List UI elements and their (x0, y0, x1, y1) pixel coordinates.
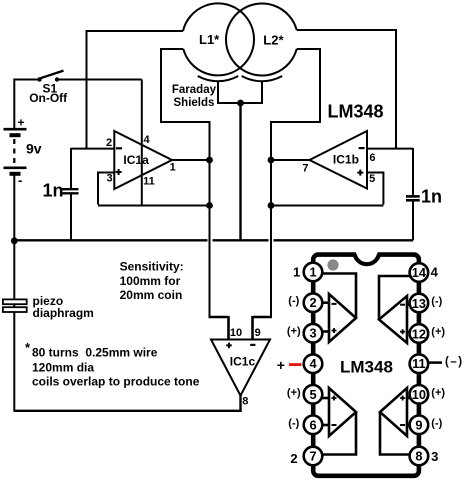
svg-text:2: 2 (309, 295, 316, 310)
coil L2 (226, 3, 297, 75)
svg-text:LM348: LM348 (340, 358, 393, 377)
DIP pin circles right (410, 263, 429, 465)
wire hook to IC1c pin10 (209, 316, 229, 340)
svg-text:11: 11 (412, 356, 426, 371)
svg-text:9v: 9v (26, 141, 42, 157)
wire C1 top lead (70, 148, 72, 188)
svg-text:Faraday: Faraday (172, 84, 217, 96)
inverting input minus IC1c (250, 344, 255, 346)
wire battery bottom lead to ground rail (13, 176, 15, 309)
wire pin5 hook (367, 173, 383, 205)
svg-text:3: 3 (309, 326, 316, 341)
wire hook to IC1c pin9 (253, 316, 273, 340)
wire shield right drop (261, 82, 263, 104)
svg-text:1n: 1n (421, 187, 442, 207)
svg-text:13: 13 (412, 296, 426, 311)
wire lower left node y205 (98, 205, 210, 207)
inverting input minus IC1a (116, 147, 122, 149)
wire pin6 input (367, 148, 413, 150)
wire L2 lower stub (297, 48, 320, 50)
wire shield left drop (217, 82, 219, 104)
svg-text:(-): (-) (288, 417, 299, 429)
svg-text:(+): (+) (431, 387, 445, 399)
svg-text:7: 7 (309, 449, 316, 464)
DIP pin11 minus lead (429, 361, 442, 364)
DIP notch (356, 251, 378, 258)
wire power line V+ pin4 to pin11 (141, 80, 143, 206)
inverting input minus IC1b (359, 147, 365, 149)
wire right node vertical x271 (270, 121, 272, 317)
switch S1 (29, 71, 68, 105)
wire battery top lead (13, 79, 15, 129)
svg-text:80 turns 0.25mm wire: 80 turns 0.25mm wire (32, 346, 158, 360)
svg-text:(+): (+) (431, 326, 445, 338)
svg-text:(-): (-) (431, 417, 442, 429)
junction right feedback node (268, 202, 275, 209)
svg-text:IC1b: IC1b (333, 152, 359, 166)
wire pin2 input (71, 148, 114, 150)
svg-text:8: 8 (242, 395, 248, 407)
DIP polarity labels blue left (287, 295, 301, 429)
wire IC1c output (239, 396, 241, 412)
svg-text:10: 10 (412, 387, 426, 402)
svg-text:1n: 1n (43, 181, 64, 201)
non-inverting input plus IC1c (226, 343, 232, 349)
junction IC1b output node (268, 157, 275, 164)
capacitor C1 1n (43, 181, 79, 201)
svg-text:3: 3 (107, 172, 113, 184)
svg-text:LM348: LM348 (328, 102, 384, 122)
DIP internal amp B pins 13-12-14 (379, 276, 413, 343)
junction battery-piezo ground node (11, 237, 18, 244)
svg-text:3: 3 (431, 449, 438, 464)
wire piezo bottom lead (13, 312, 15, 412)
wire top-right horizontal from L2 (297, 29, 396, 31)
wire lower right node y205 (271, 205, 383, 207)
svg-text:(+): (+) (287, 326, 301, 338)
svg-text:IC1c: IC1c (230, 354, 256, 368)
DIP internal amp D pins 10-9-8 (380, 388, 413, 455)
svg-text:120mm dia: 120mm dia (32, 361, 94, 375)
wire shield box right (271, 48, 321, 122)
non-inverting input plus IC1a (116, 169, 122, 175)
wire C2 bottom lead (412, 201, 414, 240)
svg-text:L1*: L1* (199, 32, 220, 47)
svg-text:9: 9 (255, 327, 261, 339)
junction shield ground node (237, 100, 244, 107)
svg-text:11: 11 (143, 176, 155, 188)
wire C1 bottom lead (70, 194, 72, 241)
svg-text:Shields: Shields (174, 97, 215, 109)
svg-text:(+): (+) (287, 387, 301, 399)
svg-text:coils overlap to produce tone: coils overlap to produce tone (32, 375, 200, 389)
svg-text:5: 5 (369, 173, 375, 185)
svg-text:L2*: L2* (263, 33, 284, 48)
svg-text:6: 6 (369, 152, 375, 164)
svg-text:14: 14 (412, 265, 427, 280)
op-amp IC1b (302, 131, 375, 189)
faraday shield right arc (242, 76, 283, 81)
DIP pin digits left (309, 265, 317, 464)
wire L1 lower stub (161, 48, 183, 50)
wire pin7 output (271, 159, 310, 161)
svg-text:1: 1 (309, 265, 316, 280)
svg-text:5: 5 (309, 387, 316, 402)
wire top-right vertical down to pin6 node (395, 29, 397, 149)
svg-text:Sensitivity:: Sensitivity: (120, 260, 184, 274)
svg-text:+: + (18, 116, 25, 130)
svg-text:diaphragm: diaphragm (33, 306, 94, 320)
svg-text:1: 1 (293, 265, 300, 280)
faraday shield left arc (198, 76, 239, 81)
wire pin3 hook (98, 173, 114, 205)
svg-text:IC1a: IC1a (123, 153, 149, 167)
DIP pin circles left (304, 263, 323, 466)
DIP polarity labels blue right (431, 296, 445, 430)
svg-text:12: 12 (412, 326, 426, 341)
wire battery top to switch (14, 79, 39, 81)
svg-text:1: 1 (170, 161, 176, 173)
wire shield box left (160, 48, 210, 122)
svg-text:6: 6 (309, 417, 316, 432)
wire shield ground drop (239, 103, 241, 240)
svg-text:4: 4 (431, 265, 439, 280)
DIP internal amp A pins 2-3-1 (320, 274, 356, 343)
svg-text:7: 7 (302, 163, 308, 175)
svg-text:2: 2 (290, 451, 297, 466)
battery 9v (4, 116, 42, 188)
wire bottom rail (14, 410, 241, 412)
svg-text:20mm coin: 20mm coin (120, 288, 183, 302)
capacitor C2 1n (406, 187, 442, 207)
svg-text:2: 2 (106, 137, 112, 149)
wire C2 top lead (412, 148, 414, 195)
DIP pin digits right (412, 265, 427, 464)
junction left feedback node (206, 202, 213, 209)
svg-text:9: 9 (415, 417, 422, 432)
svg-text:100mm for: 100mm for (120, 274, 181, 288)
op-amp IC1a (106, 131, 176, 189)
piezo transducer (3, 294, 94, 320)
wire IC1a output (172, 159, 210, 161)
svg-text:(-): (-) (431, 296, 442, 308)
svg-text:4: 4 (143, 134, 150, 146)
DIP internal amp C pins 5-6-7 (320, 388, 356, 455)
non-inverting input plus IC1b (357, 170, 363, 176)
wire top-left vertical down to pin2 node (86, 30, 88, 149)
svg-text:-: - (18, 173, 22, 188)
DIP pin1 marker dot (327, 259, 338, 270)
wire left node vertical x209 (209, 121, 211, 317)
junction IC1a output node (206, 157, 213, 164)
coil L1 (183, 3, 254, 75)
svg-text:(-): (-) (288, 295, 299, 307)
op-amp IC1c (211, 327, 270, 407)
svg-text:8: 8 (415, 449, 422, 464)
wire shield connector (217, 102, 263, 104)
svg-text:(–): (–) (445, 356, 464, 368)
DIP package LM348 body (313, 255, 419, 476)
svg-text:+: + (277, 357, 285, 373)
wire top-left horizontal to L1 (87, 30, 184, 32)
wire ground rail (14, 239, 413, 241)
wire switch to power line (57, 79, 142, 81)
svg-text:10: 10 (230, 327, 242, 339)
svg-text:4: 4 (309, 356, 317, 371)
svg-text:On-Off: On-Off (29, 91, 68, 105)
